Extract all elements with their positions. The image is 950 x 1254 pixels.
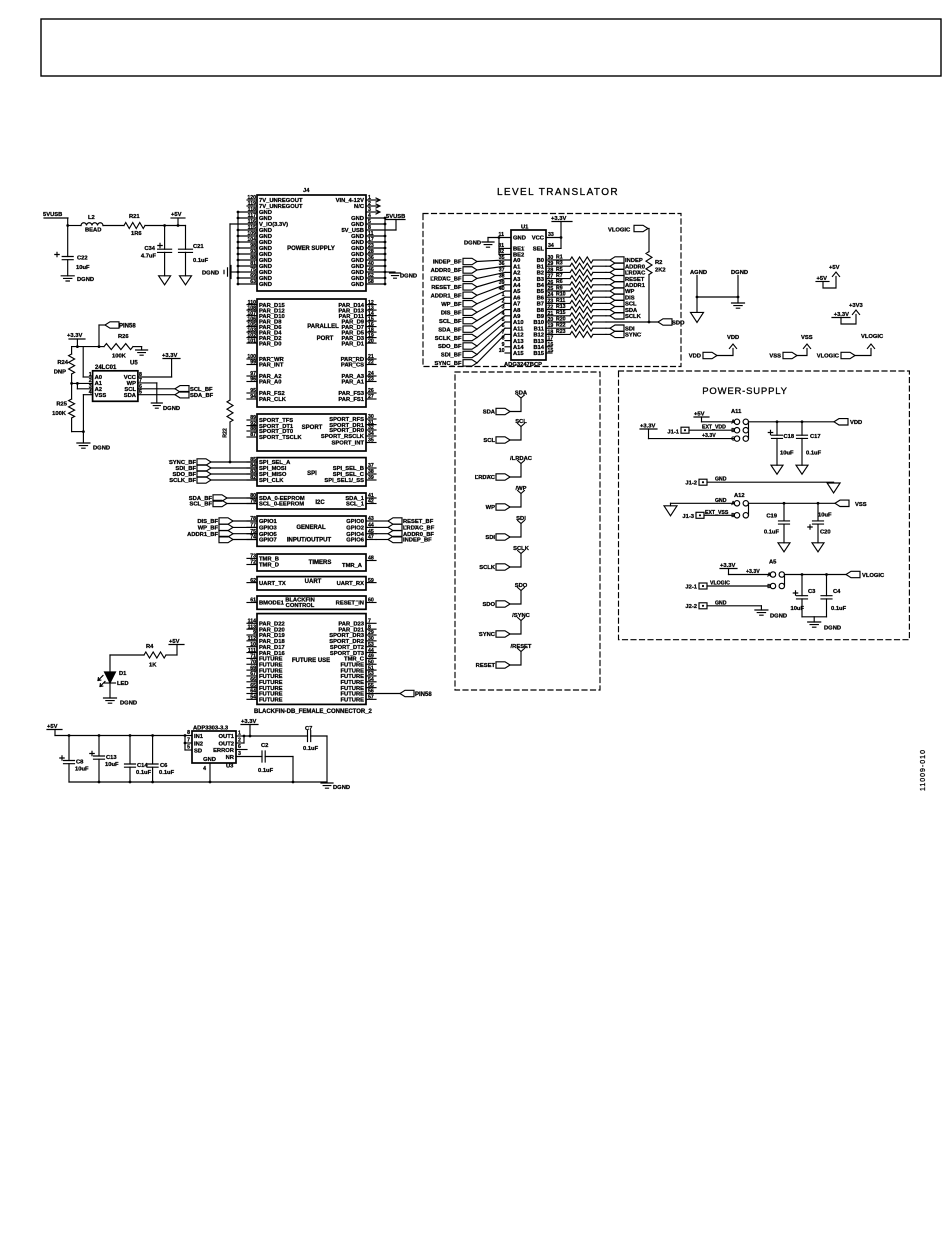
U1 pin 4 A9 <box>505 315 511 317</box>
svg-text:ADDR1_BF: ADDR1_BF <box>187 532 218 538</box>
svg-text:VSS: VSS <box>855 502 867 508</box>
PAR_A0 pin 96 <box>247 381 257 383</box>
svg-text:EXT_VSS: EXT_VSS <box>705 510 729 516</box>
net arrow SDA <box>518 395 525 398</box>
resistor R11 on B7 <box>552 302 570 304</box>
FUTURE USE right pin 53 FUTURE <box>366 675 376 677</box>
svg-text:B9: B9 <box>537 314 545 320</box>
J4 right pin 4 GND <box>366 217 385 219</box>
wire to jumper A5 A <box>729 574 771 576</box>
svg-text:7: 7 <box>187 738 190 744</box>
svg-text:PIN58: PIN58 <box>119 324 136 330</box>
wire <box>477 322 505 346</box>
svg-text:B11: B11 <box>534 326 545 332</box>
wire VLOGIC <box>707 585 770 587</box>
svg-text:B0: B0 <box>537 258 544 264</box>
wire to net arrow SCL <box>510 427 521 441</box>
SPI pin 38 SPI_SEL_C <box>366 473 376 475</box>
junction <box>82 430 85 433</box>
GPIO pin 75 GPIO5 <box>247 533 257 535</box>
svg-text:B8: B8 <box>537 308 545 314</box>
svg-text:C7: C7 <box>305 726 312 732</box>
svg-text:C4: C4 <box>833 589 841 595</box>
I2C pin 80 SDA_0-EEPROM <box>247 497 257 499</box>
I2C pin 42 SCL_1 <box>366 503 376 505</box>
U1 pin 35 A0 <box>505 259 511 261</box>
PAR_CLK pin 94 <box>247 398 257 400</box>
wire VCC to +3.3V <box>138 376 172 378</box>
SPORT pin 35 SPORT_INT <box>366 442 376 444</box>
net tag INDEP out <box>606 259 610 261</box>
svg-text:A1: A1 <box>513 264 521 270</box>
svg-text:WP_BF: WP_BF <box>441 302 462 308</box>
svg-text:SCLK: SCLK <box>513 546 530 552</box>
J4 left pin 63 GND <box>238 283 257 285</box>
GPIO pin 77 GPIO3 <box>247 526 257 528</box>
junction R2/SDO <box>648 321 651 324</box>
svg-text:96: 96 <box>250 377 256 383</box>
svg-text:0.1uF: 0.1uF <box>806 451 822 457</box>
svg-text:+3.3V: +3.3V <box>67 333 82 339</box>
wire caps common <box>802 616 827 618</box>
svg-text:C18: C18 <box>784 434 795 440</box>
wire: pullup node <box>72 346 99 348</box>
FUTURE USE right pin 44 SPORT_DT3 <box>366 652 376 654</box>
svg-text:A8: A8 <box>513 308 521 314</box>
J4 right pin 36 GND <box>366 259 385 261</box>
svg-text:LRDAC_BF: LRDAC_BF <box>430 277 462 283</box>
resistor R23 on B12 <box>552 333 570 335</box>
wire AGND stem <box>696 276 698 313</box>
PAR data pin 107 PAR_D10 <box>247 315 257 317</box>
FUTURE USE left pin 70 FUTURE <box>247 663 257 665</box>
svg-text:INDEP_BF: INDEP_BF <box>403 538 432 544</box>
FUTURE USE left pin 114 PAR_D22 <box>247 622 257 624</box>
svg-text:0.1uF: 0.1uF <box>258 768 274 774</box>
PAR_WR pin 100 <box>247 358 257 360</box>
FUTURE USE left pin 112 PAR_D18 <box>247 640 257 642</box>
svg-text:GPIO6: GPIO6 <box>346 538 364 544</box>
svg-text:VLOGIC: VLOGIC <box>710 581 730 587</box>
svg-text:DIS_BF: DIS_BF <box>197 519 218 525</box>
diode D1 LED <box>105 672 116 683</box>
PAR_FS3 pin 26 <box>366 392 376 394</box>
connector block PARALLEL PORT <box>257 299 366 407</box>
svg-text:SCL_BF: SCL_BF <box>189 502 212 508</box>
FUTURE USE left pin 67 FUTURE <box>247 675 257 677</box>
svg-text:R9: R9 <box>556 285 563 291</box>
wire LED cathode <box>109 683 111 698</box>
FUTURE USE left pin 64 FUTURE <box>247 693 257 695</box>
wire: +5V input rail <box>55 735 185 737</box>
ground DGND at U1 <box>487 238 489 243</box>
svg-text:R22: R22 <box>223 428 229 438</box>
PAR data pin 13 PAR_D13 <box>366 309 376 311</box>
FUTURE USE right pin 56 FUTURE <box>366 693 376 695</box>
svg-text:R13: R13 <box>556 304 566 310</box>
U1 pin 36 A1 <box>505 265 511 267</box>
resistor R20 on B10 <box>552 321 570 323</box>
U1 pin 17 B13 <box>546 340 552 342</box>
U1 pin 23 B7 <box>546 302 552 304</box>
wire <box>477 266 505 270</box>
capacitor C13 10uF <box>98 736 100 757</box>
svg-text:RESET: RESET <box>625 277 645 283</box>
svg-text:N/C: N/C <box>354 204 365 210</box>
U1 pin 33 VCC <box>546 237 561 239</box>
svg-text:GPIO7: GPIO7 <box>259 538 277 544</box>
connector block TIMERS <box>257 554 366 571</box>
title block (empty) <box>41 19 941 76</box>
PAR data pin 105 PAR_D6 <box>247 326 257 328</box>
junction <box>801 573 804 576</box>
wire GND <box>707 481 834 483</box>
svg-text:CONTROL: CONTROL <box>286 603 315 609</box>
resistor R2 2K2 <box>646 252 652 275</box>
svg-text:A: A <box>767 572 771 578</box>
svg-text:B15: B15 <box>533 351 544 357</box>
wire to net arrow /RESET <box>510 652 521 666</box>
svg-text:A14: A14 <box>513 345 524 351</box>
svg-text:VLOGIC: VLOGIC <box>861 334 884 340</box>
svg-text:WP: WP <box>625 289 634 295</box>
svg-text:C8: C8 <box>76 760 84 766</box>
capacitor C19 0.1uF <box>783 503 785 521</box>
svg-text:SDO_BF: SDO_BF <box>438 344 462 350</box>
SPI pin 39 SPI_SEL1/_SS <box>366 479 376 481</box>
PAR data pin 18 PAR_D5 <box>366 331 376 333</box>
svg-text:/SYNC: /SYNC <box>512 613 531 619</box>
J4 left pin 88 GND <box>238 259 257 261</box>
svg-text:R21: R21 <box>129 214 140 220</box>
wire to net arrow SDO <box>510 591 521 605</box>
resistor R6 on B4 <box>552 284 570 286</box>
svg-text:POWER-SUPPLY: POWER-SUPPLY <box>702 386 787 397</box>
TIMERS pin 73 TMR_B <box>247 557 257 559</box>
svg-text:PORT: PORT <box>317 336 334 342</box>
svg-text:SDI_BF: SDI_BF <box>441 353 462 359</box>
svg-text:10: 10 <box>499 348 505 354</box>
wire <box>477 303 505 320</box>
svg-text:SDA: SDA <box>515 391 528 397</box>
net tag ADDR0_BF <box>388 531 402 537</box>
wire +3.3V to jumper C <box>649 438 735 440</box>
PAR data pin 108 PAR_D12 <box>247 309 257 311</box>
net arrow SCL <box>518 424 525 427</box>
svg-text:0.1uF: 0.1uF <box>159 770 175 776</box>
svg-text:27: 27 <box>368 394 374 400</box>
svg-text:SPORT: SPORT <box>302 425 323 431</box>
svg-text:SDA_BF: SDA_BF <box>190 393 214 399</box>
junction <box>696 296 699 299</box>
svg-text:SPORT_RSCLK: SPORT_RSCLK <box>321 434 365 440</box>
svg-text:5VUSB: 5VUSB <box>43 212 62 218</box>
resistor R13 on B8 <box>552 309 570 311</box>
svg-text:TMR_D: TMR_D <box>259 563 279 569</box>
FUTURE USE right pin 50 FUTURE <box>366 663 376 665</box>
U1 pin 31 BE1 <box>499 247 511 249</box>
FUTURE USE left pin 9 PAR_D19 <box>247 634 257 636</box>
ground below C19 <box>778 543 790 552</box>
J4 left pin 69 GND <box>238 277 257 279</box>
FUTURE USE left pin 66 FUTURE <box>247 681 257 683</box>
svg-text:87: 87 <box>250 432 256 438</box>
svg-text:ERROR: ERROR <box>213 748 235 754</box>
wire OUT1 to C7 <box>244 735 308 737</box>
svg-text:9: 9 <box>502 342 505 348</box>
U1 pin 6 A11 <box>505 327 511 329</box>
svg-text:48: 48 <box>368 556 374 562</box>
net arrow /WP <box>518 491 525 494</box>
svg-text:GND: GND <box>715 498 727 504</box>
wire jumper common <box>748 503 750 515</box>
svg-text:SCL: SCL <box>625 302 637 308</box>
svg-text:/WP: /WP <box>516 486 527 492</box>
dashed box POWER-SUPPLY <box>619 371 910 640</box>
svg-text:SPI_CLK: SPI_CLK <box>259 478 284 484</box>
J4 right pin 40 GND <box>366 265 385 267</box>
svg-text:A2: A2 <box>513 271 520 277</box>
capacitor C4 0.1uF <box>826 575 828 596</box>
net tag INDEP_BF <box>388 536 402 542</box>
wire BE1/BE2 to GND <box>498 238 500 255</box>
net tag SDA out <box>606 309 610 311</box>
svg-text:33: 33 <box>548 232 554 238</box>
wire EXT_VDD <box>689 429 734 431</box>
U1 pin 32 BE2 <box>499 253 511 255</box>
connector block GENERAL INPUT/OUTPUT <box>257 516 366 546</box>
svg-text:SDO: SDO <box>672 321 685 327</box>
ground DGND at J2-2 <box>760 606 762 610</box>
resistor R4 1K <box>166 654 177 656</box>
svg-text:B4: B4 <box>537 283 545 289</box>
wire to A1 <box>72 382 93 384</box>
U1 pin 40 A5 <box>505 290 511 292</box>
svg-text:B14: B14 <box>533 345 544 351</box>
svg-text:SDA: SDA <box>124 393 137 399</box>
ground AGND triangle <box>691 312 704 322</box>
junction <box>776 420 779 423</box>
svg-text:0.1uF: 0.1uF <box>303 746 319 752</box>
svg-text:AGND: AGND <box>690 270 707 276</box>
GPIO pin 47 GPIO6 <box>366 539 376 541</box>
wire R4 to LED <box>110 654 144 656</box>
svg-text:WP: WP <box>486 505 495 511</box>
svg-text:34: 34 <box>368 431 374 437</box>
capacitor C7 0.1uF <box>308 731 311 742</box>
ground DGND at U5 WP <box>151 403 162 408</box>
svg-text:+5V: +5V <box>171 212 182 218</box>
U1 pin 39 A4 <box>505 284 511 286</box>
svg-text:SCL: SCL <box>483 438 495 444</box>
J4 right pin 3 <box>366 211 379 213</box>
FUTURE USE right pin 51 FUTURE <box>366 669 376 671</box>
wire C2 to ground rail <box>265 756 293 758</box>
svg-text:SPI: SPI <box>307 471 317 477</box>
svg-text:SPORT_INT: SPORT_INT <box>331 441 364 447</box>
FUTURE USE right pin 30 SPORT_DR2 <box>366 640 376 642</box>
svg-text:59: 59 <box>368 578 374 584</box>
net tag SDA_BF <box>175 392 189 398</box>
SPORT pin 92 SPORT_DT1 <box>247 425 257 427</box>
svg-text:57: 57 <box>368 695 374 701</box>
ground DGND below C22 <box>61 276 74 281</box>
GPIO pin 44 GPIO2 <box>366 526 376 528</box>
svg-text:SCL: SCL <box>515 419 527 425</box>
PAR data pin 12 PAR_D14 <box>366 304 376 306</box>
svg-text:VDD: VDD <box>689 354 701 360</box>
svg-text:J1-3: J1-3 <box>682 514 694 520</box>
svg-text:C34: C34 <box>144 246 155 252</box>
svg-text:RESET_IN: RESET_IN <box>336 601 364 607</box>
svg-text:GENERAL: GENERAL <box>296 525 326 531</box>
PAR data pin 20 PAR_D1 <box>366 342 376 344</box>
ground below C20 <box>812 543 824 552</box>
PAR data pin 16 PAR_D7 <box>366 326 376 328</box>
svg-text:OUT1: OUT1 <box>219 734 235 740</box>
FUTURE USE right pin 54 FUTURE <box>366 681 376 683</box>
GPIO pin 74 GPIO7 <box>247 539 257 541</box>
I2C pin 41 SDA_1 <box>366 497 376 499</box>
svg-text:SPORT_TSCLK: SPORT_TSCLK <box>259 435 302 441</box>
junction R24/R25 node <box>70 382 73 385</box>
junction <box>783 502 786 505</box>
ground DGND below C3/C4 <box>813 617 815 622</box>
svg-text:IN2: IN2 <box>194 741 203 747</box>
capacitor C17 0.1uF <box>801 422 803 435</box>
svg-text:DNP: DNP <box>54 370 66 376</box>
UART pin 59 UART_RX <box>366 582 376 584</box>
U1 pin 34 SEL <box>546 247 561 249</box>
svg-text:17: 17 <box>548 336 554 342</box>
svg-text:A5: A5 <box>513 289 521 295</box>
SPORT pin 87 SPORT_TSCLK <box>247 436 257 438</box>
resistor R21 1R6 <box>124 223 145 229</box>
svg-text:SYNC: SYNC <box>625 333 642 339</box>
svg-text:DGND: DGND <box>93 446 110 452</box>
svg-text:GPIO1: GPIO1 <box>259 519 277 525</box>
svg-text:61: 61 <box>250 598 256 604</box>
svg-text:20: 20 <box>368 338 374 344</box>
svg-text:SCL_0-EEPROM: SCL_0-EEPROM <box>259 502 304 508</box>
svg-text:U5: U5 <box>130 361 138 367</box>
svg-text:OUT2: OUT2 <box>219 741 234 747</box>
PAR data pin 19 PAR_D3 <box>366 337 376 339</box>
wire: J4 left GND bus <box>237 212 239 284</box>
wire GPIO to INDEP_BF <box>376 539 388 541</box>
J4 right pin 2 N/C <box>366 205 379 207</box>
capacitor C22 10uF <box>67 226 69 257</box>
PAR_A2 pin 97 <box>247 375 257 377</box>
wire R2 to SDO <box>648 275 650 322</box>
wire <box>477 310 505 330</box>
ground DGND below U5 <box>77 443 90 448</box>
J4 left pin 119 7V_UNREGOUT <box>247 205 257 207</box>
J4 left pin 81 GND <box>238 265 257 267</box>
svg-text:DGND: DGND <box>77 277 94 283</box>
connector block UART <box>257 577 366 590</box>
svg-text:+5V: +5V <box>829 265 840 271</box>
wire A0 net <box>82 347 84 377</box>
svg-text:B10: B10 <box>533 320 544 326</box>
net tag VDD out <box>834 419 848 425</box>
wire GND <box>707 605 761 607</box>
J4 right pin 58 GND <box>366 283 385 285</box>
net tag (GPIO7 wire) to GPIO <box>219 536 233 542</box>
U1 pin 38 A3 <box>505 278 511 280</box>
U1 pin 3 A8 <box>505 309 511 311</box>
U1 pin 28 B2 <box>546 271 552 273</box>
svg-text:DIS_BF: DIS_BF <box>441 310 462 316</box>
svg-text:INPUT/OUTPUT: INPUT/OUTPUT <box>287 538 332 544</box>
svg-text:LRDAC: LRDAC <box>475 475 496 481</box>
capacitor C34 4.7uF <box>164 226 166 250</box>
svg-text:VLOGIC: VLOGIC <box>817 354 840 360</box>
svg-text:A6: A6 <box>513 295 521 301</box>
inductor L2 BEAD <box>81 223 103 226</box>
svg-text:22: 22 <box>368 360 374 366</box>
svg-text:62: 62 <box>250 578 256 584</box>
wire: J4 right GND bus <box>384 218 386 284</box>
svg-text:TMR_B: TMR_B <box>259 557 279 563</box>
U1 pin 27 B3 <box>546 278 552 280</box>
wire <box>227 497 257 499</box>
svg-text:R20: R20 <box>556 316 566 322</box>
capacitor C8 10uF <box>68 736 70 761</box>
svg-text:BEAD: BEAD <box>85 228 101 234</box>
svg-text:5: 5 <box>187 745 190 751</box>
svg-text:A11: A11 <box>731 409 742 415</box>
I2C pin 79 SCL_0-EEPROM <box>247 503 257 505</box>
wire jumper common <box>784 575 786 587</box>
svg-text:A7: A7 <box>513 302 520 308</box>
J4 left pin 115 GND <box>238 229 257 231</box>
wire to net arrow /LRDAC <box>510 464 521 478</box>
U1 pin 2 A7 <box>505 302 511 304</box>
svg-text:GND: GND <box>351 282 364 288</box>
wire WP to ground <box>138 382 157 384</box>
net tag SDO <box>658 319 672 325</box>
svg-text:0.1uF: 0.1uF <box>764 530 780 536</box>
net tag VLOGIC out <box>846 571 860 577</box>
svg-text:SDI: SDI <box>485 535 495 541</box>
SPI pin 82 SPI_CLK <box>247 479 257 481</box>
wire GND to jumper A12 A <box>671 502 735 504</box>
net tag WP out <box>606 290 610 292</box>
svg-text:SCLK_BF: SCLK_BF <box>169 478 196 484</box>
svg-text:1R6: 1R6 <box>131 231 142 237</box>
J4 left pin 120 7V_UNREGOUT <box>247 199 257 201</box>
PAR_FS1 pin 27 <box>366 398 376 400</box>
SPI pin 85 SPI_SEL_A <box>247 461 257 463</box>
resistor R15 on B9 <box>552 315 570 317</box>
svg-text:SDO: SDO <box>482 602 495 608</box>
svg-text:NR: NR <box>226 755 235 761</box>
J4 left pin 93 GND <box>238 253 257 255</box>
capacitor C21 0.1uF <box>185 226 187 250</box>
svg-text:B12: B12 <box>533 333 544 339</box>
svg-text:42: 42 <box>368 499 374 505</box>
svg-text:A11: A11 <box>513 326 524 332</box>
wire jumper common <box>748 422 750 439</box>
svg-text:39: 39 <box>368 475 374 481</box>
SPORT pin 31 SPORT_DR1 <box>366 424 376 426</box>
wire to net arrow /WP <box>510 494 521 508</box>
svg-text:3: 3 <box>238 751 241 757</box>
svg-text:35: 35 <box>368 438 374 444</box>
ground triangle at A12 pin A <box>664 506 677 516</box>
J4 right pin 17 GND <box>366 241 385 243</box>
